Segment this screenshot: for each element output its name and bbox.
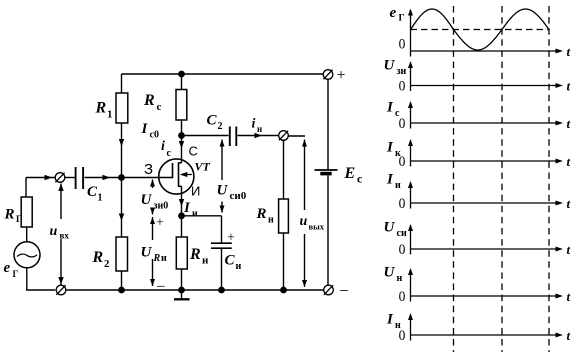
- svg-text:С: С: [189, 144, 198, 159]
- label - polarity URи: [156, 278, 165, 294]
- label Rи: [189, 246, 209, 267]
- label URи: [141, 245, 168, 265]
- junction Cи / bottom rail: [219, 287, 225, 293]
- label Iк axis: [386, 140, 401, 160]
- svg-text:И: И: [191, 184, 200, 199]
- svg-text:0: 0: [399, 115, 406, 132]
- svg-text:к: к: [395, 148, 401, 159]
- svg-text:0: 0: [399, 78, 406, 95]
- svg-text:Г: Г: [13, 269, 19, 279]
- axes for waveform Iн: [408, 313, 563, 341]
- label Uси0: [217, 183, 247, 203]
- capacitor C1: [65, 167, 122, 189]
- battery EC: [315, 79, 338, 285]
- pin label З (gate): [144, 161, 153, 178]
- svg-text:вх: вх: [60, 231, 70, 241]
- junction gate node (R1/R2 divider): [119, 175, 125, 181]
- svg-text:и: и: [161, 253, 167, 264]
- svg-text:I: I: [141, 121, 149, 137]
- label Iн axis: [386, 312, 401, 332]
- svg-text:u: u: [50, 224, 58, 239]
- svg-text:н: н: [397, 273, 403, 284]
- terminal -Ec (bottom right): [324, 285, 334, 295]
- svg-text:VT: VT: [195, 160, 211, 174]
- svg-text:0: 0: [399, 195, 406, 212]
- terminal +Ec (top right): [323, 70, 333, 80]
- label + polarity: [337, 67, 346, 84]
- label 0 for Iк: [399, 153, 406, 170]
- junction Rн / bottom rail: [281, 287, 287, 293]
- svg-text:0: 0: [399, 36, 406, 53]
- label t for Uн: [567, 289, 571, 304]
- label Iи axis: [386, 172, 401, 192]
- svg-text:и: и: [202, 255, 209, 267]
- svg-text:–: –: [339, 282, 349, 299]
- terminal input (top left): [55, 173, 65, 183]
- svg-text:U: U: [141, 192, 153, 208]
- label EC: [344, 165, 364, 186]
- svg-text:t: t: [567, 289, 571, 304]
- label eг axis: [390, 5, 405, 24]
- wire VT source to node Iи with current arrow: [179, 186, 184, 216]
- svg-text:i: i: [252, 117, 256, 132]
- svg-text:t: t: [567, 116, 571, 131]
- svg-text:1: 1: [107, 109, 113, 121]
- svg-text:зи0: зи0: [154, 201, 169, 212]
- label t for Uси: [567, 242, 571, 257]
- svg-text:e: e: [390, 5, 397, 21]
- substrate arrow of VT: [180, 172, 188, 177]
- transistor VT (FET): [159, 159, 194, 194]
- measurement arrow uвых: [302, 140, 307, 288]
- svg-text:U: U: [217, 183, 229, 199]
- label R2: [92, 249, 111, 270]
- svg-text:вых: вых: [309, 222, 325, 232]
- label t for Uзи: [567, 79, 571, 94]
- axes for waveform Uн: [408, 268, 563, 302]
- svg-text:Г: Г: [399, 14, 405, 24]
- label Uзи0: [141, 192, 169, 212]
- svg-text:0: 0: [399, 241, 406, 258]
- svg-text:t: t: [567, 242, 571, 257]
- wire bottom rail: [26, 289, 324, 291]
- wire top supply rail: [122, 73, 324, 75]
- sine waveform eг: [411, 9, 550, 50]
- svg-text:i: i: [161, 139, 165, 154]
- wire gate node to VT: [103, 175, 159, 180]
- label eг: [4, 260, 19, 279]
- svg-text:с: с: [357, 172, 363, 186]
- label t for Iк: [567, 154, 571, 169]
- svg-text:н: н: [257, 124, 262, 134]
- svg-text:R: R: [256, 206, 267, 222]
- label 0 for eг: [399, 36, 406, 53]
- label t for Iс: [567, 116, 571, 131]
- label uвх: [50, 224, 70, 241]
- dashed bias level line for eг: [411, 29, 550, 31]
- label + polarity URи: [156, 216, 164, 231]
- svg-text:0: 0: [399, 288, 406, 305]
- resistor R1: [116, 74, 128, 178]
- label 0 for Iс: [399, 115, 406, 132]
- svg-text:с: с: [395, 108, 400, 119]
- svg-text:t: t: [567, 328, 571, 343]
- label Rг: [4, 207, 23, 225]
- dashed vertical timing line 1: [453, 6, 455, 352]
- svg-text:R: R: [143, 92, 155, 109]
- junction R2 / bottom rail: [119, 287, 125, 293]
- svg-text:2: 2: [218, 121, 223, 132]
- svg-text:си0: си0: [230, 190, 247, 202]
- svg-text:R: R: [95, 100, 107, 117]
- svg-text:U: U: [384, 58, 396, 74]
- junction Rи / bottom rail: [179, 287, 185, 293]
- label iн: [252, 117, 263, 135]
- dashed vertical timing line 3: [548, 6, 550, 352]
- svg-text:E: E: [344, 165, 356, 182]
- svg-text:I: I: [386, 312, 394, 328]
- resistor Rг (generator): [21, 178, 32, 243]
- resistor Rи (source resistor): [176, 216, 187, 290]
- terminal output: [279, 131, 289, 141]
- svg-text:н: н: [268, 215, 274, 226]
- svg-text:U: U: [141, 245, 153, 261]
- junction top rail / RC drain branch: [179, 71, 185, 77]
- measurement arrow URи with polarity: [150, 217, 155, 286]
- svg-text:и: и: [236, 261, 242, 272]
- label 0 for Iн: [399, 327, 406, 344]
- label uвых: [300, 214, 325, 232]
- label t for eг: [567, 44, 571, 59]
- svg-text:+: +: [156, 216, 164, 231]
- label Cи: [225, 253, 242, 273]
- svg-text:R: R: [92, 249, 104, 266]
- label 0 for Iи: [399, 195, 406, 212]
- svg-text:e: e: [4, 260, 11, 276]
- wire drain node to VT drain with current arrow: [179, 136, 184, 163]
- svg-text:н: н: [395, 320, 401, 331]
- svg-text:+: +: [227, 231, 235, 246]
- label 0 for Uзи: [399, 78, 406, 95]
- axes for waveform Iи: [408, 181, 563, 209]
- svg-text:t: t: [567, 154, 571, 169]
- label R1: [95, 100, 113, 121]
- node Iи (source node): [179, 213, 185, 219]
- label Iс axis: [386, 100, 400, 120]
- svg-text:R: R: [189, 246, 201, 263]
- label C1: [87, 184, 103, 204]
- svg-text:I: I: [386, 140, 394, 156]
- svg-text:u: u: [300, 214, 308, 229]
- svg-text:З: З: [144, 161, 153, 178]
- svg-text:с0: с0: [150, 130, 159, 141]
- label 0 for Uси: [399, 241, 406, 258]
- wire source node to Cи branch: [182, 215, 222, 217]
- axes for waveform Iс: [408, 101, 563, 129]
- label - polarity: [339, 282, 349, 299]
- svg-text:и: и: [192, 209, 198, 220]
- svg-text:Г: Г: [16, 214, 22, 224]
- wire output stub: [288, 135, 305, 137]
- wire input with arrow: [26, 175, 55, 180]
- svg-text:1: 1: [98, 193, 103, 204]
- ground: [174, 290, 190, 299]
- svg-text:t: t: [567, 196, 571, 211]
- axes for waveform Iк: [408, 139, 563, 167]
- measurement arrow uвх: [58, 184, 63, 285]
- svg-text:t: t: [567, 44, 571, 59]
- axes for waveform Uси: [408, 224, 563, 255]
- terminal input (bottom left): [56, 285, 66, 295]
- measurement arrow Uзи0 (gate-source bias): [150, 180, 155, 215]
- label RC: [143, 92, 162, 113]
- svg-text:t: t: [567, 79, 571, 94]
- capacitor Cи (bypass): [211, 216, 232, 290]
- label Rн: [256, 206, 275, 226]
- svg-text:с: с: [157, 101, 162, 113]
- svg-text:C: C: [225, 253, 236, 269]
- pin label С (drain): [189, 144, 198, 159]
- svg-text:I: I: [386, 172, 394, 188]
- label 0 for Uн: [399, 288, 406, 305]
- axes for waveform Uзи: [408, 61, 563, 91]
- svg-text:+: +: [337, 67, 346, 84]
- label Iи: [183, 200, 198, 220]
- label t for Iи: [567, 196, 571, 211]
- current arrow through R2: [119, 214, 124, 222]
- svg-text:I: I: [183, 200, 191, 216]
- label ic drain current: [161, 139, 172, 159]
- label Uси axis: [384, 220, 407, 240]
- svg-text:U: U: [384, 220, 396, 236]
- label C2: [207, 113, 223, 133]
- svg-text:U: U: [384, 265, 396, 281]
- svg-text:C: C: [87, 184, 98, 200]
- svg-text:зи: зи: [397, 66, 407, 77]
- dashed vertical timing line 2: [501, 6, 503, 352]
- resistor RC (drain resistor): [176, 74, 187, 136]
- current arrow through R1: [119, 139, 124, 147]
- current arrow iн: [255, 133, 263, 138]
- svg-text:R: R: [4, 207, 15, 223]
- node IC0 (drain node): [179, 133, 185, 139]
- svg-text:C: C: [207, 113, 218, 129]
- svg-text:и: и: [395, 180, 401, 191]
- label Uн axis: [384, 265, 403, 285]
- label Uзи axis: [384, 58, 407, 78]
- resistor Rн (load): [279, 140, 289, 290]
- svg-text:с: с: [167, 148, 172, 159]
- label IC0: [141, 121, 159, 141]
- label t for Iн: [567, 328, 571, 343]
- label + polarity Cи: [227, 231, 235, 246]
- svg-text:R: R: [153, 253, 161, 264]
- svg-text:си: си: [397, 228, 407, 239]
- svg-text:2: 2: [104, 258, 110, 270]
- label VT: [195, 160, 211, 174]
- svg-text:–: –: [156, 278, 165, 294]
- svg-text:I: I: [386, 100, 394, 116]
- source eг (sine generator): [14, 242, 40, 290]
- capacitor C2: [182, 127, 279, 147]
- measurement arrow Uси0: [220, 140, 225, 213]
- resistor R2: [116, 178, 128, 291]
- axes for waveform eг: [408, 9, 563, 57]
- pin label И (source): [191, 184, 200, 199]
